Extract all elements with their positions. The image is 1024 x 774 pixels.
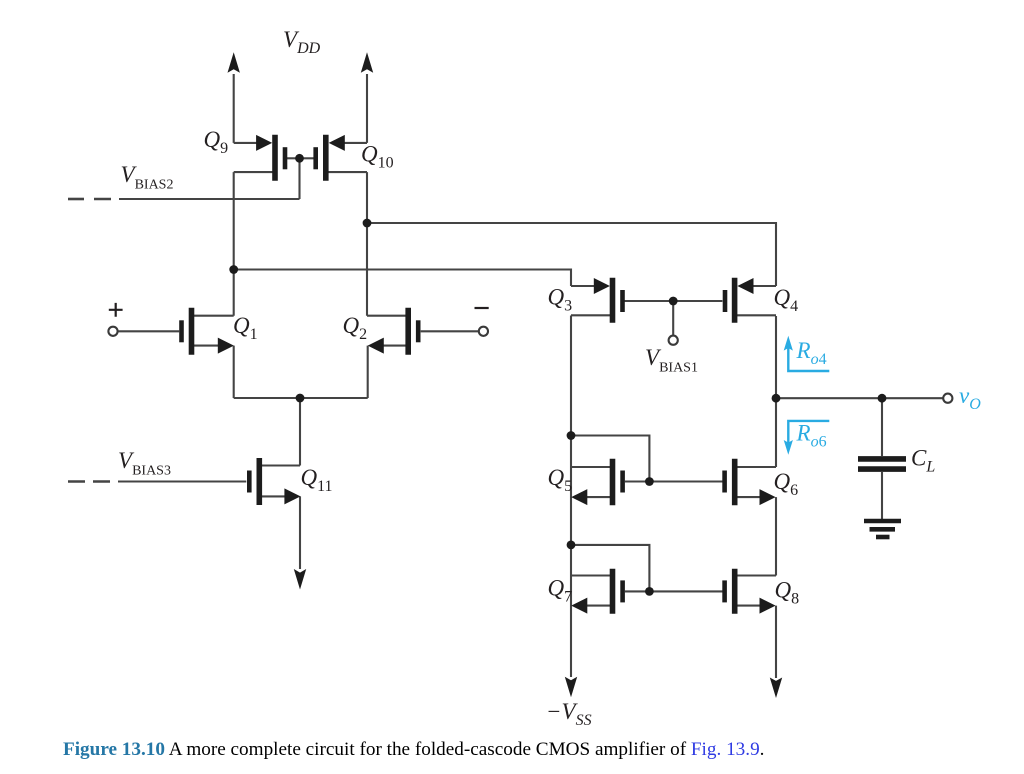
wire Q3 drain lead <box>571 314 613 316</box>
transistor Q2 channel bar <box>405 308 411 355</box>
svg-text:VBIAS1: VBIAS1 <box>645 345 698 376</box>
wire Q8 source down to VSS arrow <box>775 606 777 678</box>
wire Q6 source lead <box>735 496 760 498</box>
wire gate tie Q9Q10 down to VBIAS2 <box>298 158 300 199</box>
transistor Q10 gate bar <box>313 147 318 169</box>
wire Q10 drain column to Q2 drain <box>366 172 368 316</box>
arrowhead VDD left <box>228 52 240 73</box>
node dot output at Q4Q6 <box>772 394 781 403</box>
caption Figure 13.10 <box>63 739 1003 761</box>
wire VBIAS2 dash 2 <box>94 198 111 201</box>
wire Q5 gate line to Q6 <box>625 480 724 482</box>
node dot Q7Q8 gate line <box>645 587 654 596</box>
arrowhead Q8 source <box>760 598 776 614</box>
node dot tail <box>296 394 305 403</box>
transistor Q5 channel bar <box>610 459 616 506</box>
wire Q8 source lead <box>735 605 760 607</box>
svg-text:Q11: Q11 <box>301 465 333 495</box>
svg-text:Ro6: Ro6 <box>796 421 827 451</box>
arrowhead Q6 source <box>760 489 776 505</box>
terminal circle minus input <box>479 327 488 336</box>
transistor Q3 gate bar <box>620 290 625 312</box>
Ro4 indicator line <box>788 348 829 371</box>
arrowhead Q5 source <box>571 489 587 505</box>
svg-text:Q8: Q8 <box>775 578 800 608</box>
wire Q6 drain lead <box>735 466 776 468</box>
arrowhead right rail down VSS <box>770 678 782 699</box>
wire Q11 source lead <box>259 495 286 497</box>
wire Q3 drain column down left rail <box>570 316 572 678</box>
wire Q9 drain column to Q1 drain <box>233 172 235 316</box>
wire Q2 gate lead <box>421 330 480 332</box>
svg-text:VBIAS2: VBIAS2 <box>121 162 174 193</box>
wire Q10 source lead <box>344 142 367 144</box>
wire node B to Q4 source <box>367 223 776 286</box>
wire Q7 drain lead <box>571 574 613 576</box>
svg-text:VBIAS3: VBIAS3 <box>118 448 171 479</box>
wire output line <box>776 397 944 399</box>
capacitor CL top plate <box>858 456 906 462</box>
transistor Q10 channel bar <box>323 135 329 181</box>
wire capacitor top <box>881 398 883 456</box>
transistor Q9 channel bar <box>272 135 278 181</box>
label minus sign <box>475 307 489 309</box>
wire node A to Q3 source <box>234 270 571 287</box>
node dot B Q10-Q2 drains <box>363 219 372 228</box>
wire Q4 source lead <box>752 285 776 287</box>
wire Q7 gate tie <box>571 545 649 592</box>
terminal circle output vO <box>943 394 952 403</box>
node dot Q5 gate tie <box>567 431 576 440</box>
svg-text:Q4: Q4 <box>774 285 799 315</box>
transistor Q6 channel bar <box>732 459 738 506</box>
arrowhead Q11 down VSS <box>294 569 306 590</box>
node dot Q5Q6 gate line <box>645 477 654 486</box>
wire Q5 gate tie <box>571 436 649 482</box>
ground bar 2 <box>870 527 896 532</box>
transistor Q4 channel bar <box>732 278 738 323</box>
svg-text:−VSS: −VSS <box>546 699 592 729</box>
node dot Q9Q10 gates <box>295 154 304 163</box>
wire Q1 gate lead <box>117 330 179 332</box>
capacitor CL bottom plate <box>858 466 906 472</box>
transistor Q3 channel bar <box>610 278 616 323</box>
node dot Q7 gate tie <box>567 541 576 550</box>
svg-text:Q5: Q5 <box>548 465 573 495</box>
wire VBIAS1 stub <box>672 301 674 335</box>
svg-text:VDD: VDD <box>283 27 321 57</box>
node dot A Q9-Q1 drains <box>229 265 238 274</box>
svg-text:Q3: Q3 <box>548 285 573 315</box>
transistor Q4 gate bar <box>723 290 728 312</box>
wire Q1 source lead <box>192 345 221 347</box>
wire VBIAS2 line <box>119 198 300 200</box>
ground bar 1 <box>864 519 901 524</box>
wire VBIAS2 dash 1 <box>68 198 84 201</box>
arrowhead Q2 source <box>368 338 384 354</box>
wire Q6 source down to Q8 <box>775 497 777 575</box>
arrowhead Q10 source <box>329 135 345 151</box>
wire Q7 source lead <box>585 605 613 607</box>
svg-text:vO: vO <box>959 383 981 413</box>
Ro6 arrowhead down <box>784 440 793 455</box>
arrowhead left rail down VSS <box>565 677 577 698</box>
transistor Q8 gate bar <box>722 580 727 602</box>
wire Q8 drain lead <box>735 574 776 576</box>
wire Q11 drain lead <box>259 464 300 466</box>
svg-text:Q1: Q1 <box>233 313 258 343</box>
transistor Q9 gate bar <box>283 147 288 169</box>
Ro6 indicator line <box>788 421 829 443</box>
Ro4 arrowhead up <box>784 336 793 351</box>
svg-text:Q9: Q9 <box>204 127 229 157</box>
wire tail node horizontal <box>234 397 368 399</box>
wire Q9 drain lead <box>234 171 275 173</box>
wire Q1 source down <box>233 346 235 398</box>
wire VDD arrow line right <box>366 74 368 143</box>
svg-text:Q2: Q2 <box>343 313 368 343</box>
transistor Q11 channel bar <box>256 458 262 505</box>
svg-text:CL: CL <box>911 446 935 476</box>
terminal circle plus input <box>108 327 117 336</box>
wire Q2 source lead <box>381 345 408 347</box>
wire tail down to Q11 <box>299 398 301 466</box>
wire Q5 source lead <box>585 496 613 498</box>
svg-text:Q7: Q7 <box>548 576 573 606</box>
wire VBIAS3 dash 1 <box>68 480 85 483</box>
transistor Q6 gate bar <box>722 471 727 493</box>
wire VDD arrow line left <box>233 74 235 143</box>
transistor Q8 channel bar <box>732 569 738 614</box>
wire VBIAS3 dash 2 <box>93 480 110 483</box>
wire Q10 gate lead <box>300 157 314 159</box>
transistor Q1 gate bar <box>179 320 184 342</box>
transistor Q5 gate bar <box>620 471 625 493</box>
transistor Q2 gate bar <box>416 320 421 342</box>
wire Q3 source lead <box>571 285 596 287</box>
node dot VBIAS1 <box>669 297 678 306</box>
wire capacitor bottom to ground <box>881 472 883 519</box>
arrowhead Q3 source <box>594 278 610 294</box>
arrowhead Q4 source <box>737 278 753 294</box>
wire Q2 drain lead <box>367 315 408 317</box>
label plus sign <box>109 303 123 317</box>
ground bar 3 <box>876 535 890 540</box>
wire Q4 drain column to output node and Q6 <box>775 316 777 467</box>
wire Q5 drain lead <box>571 466 613 468</box>
arrowhead Q1 source <box>218 338 234 354</box>
wire Q4 drain lead <box>735 314 776 316</box>
svg-text:Q10: Q10 <box>361 142 394 172</box>
wire Q9 gate lead <box>287 157 300 159</box>
svg-text:Ro4: Ro4 <box>796 338 827 368</box>
transistor Q7 gate bar <box>620 580 625 602</box>
transistor Q11 gate bar <box>247 471 252 493</box>
arrowhead Q9 source <box>256 135 272 151</box>
wire Q7 gate line to Q8 <box>625 590 724 592</box>
wire Q10 drain lead <box>326 171 367 173</box>
arrowhead Q7 source <box>571 598 587 614</box>
node dot output at CL <box>878 394 887 403</box>
wire VBIAS3 line <box>118 480 246 482</box>
wire Q1 drain lead <box>192 315 234 317</box>
arrowhead VDD right <box>361 52 373 73</box>
wire Q3 gate line to Q4 <box>624 300 723 302</box>
wire Q11 source down to VSS arrow <box>299 496 301 569</box>
arrowhead Q11 source <box>284 488 300 504</box>
terminal circle VBIAS1 <box>669 336 678 345</box>
wire Q9 source lead <box>234 142 258 144</box>
transistor Q7 channel bar <box>610 569 616 614</box>
svg-text:Q6: Q6 <box>774 469 799 499</box>
transistor Q1 channel bar <box>189 308 195 355</box>
wire Q2 source down <box>367 346 369 398</box>
